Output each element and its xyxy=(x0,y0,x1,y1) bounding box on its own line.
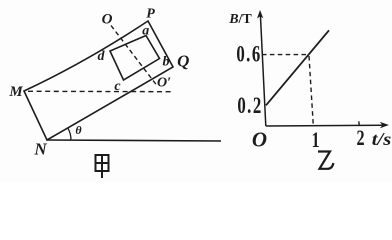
caption yi xyxy=(318,152,333,169)
svg-text:0.6: 0.6 xyxy=(236,42,261,67)
svg-text:t/s: t/s xyxy=(372,129,392,149)
svg-text:N: N xyxy=(33,140,47,159)
svg-text:2: 2 xyxy=(356,127,364,151)
dashed horizontal from M xyxy=(28,90,172,92)
rectangle plate MPQN xyxy=(24,21,173,140)
x axis arrowhead xyxy=(380,122,389,128)
svg-text:M: M xyxy=(8,84,23,100)
coil loop abcd xyxy=(110,36,160,81)
svg-text:O: O xyxy=(252,128,267,152)
tick at 2 xyxy=(358,121,361,126)
axis dashed O-O' xyxy=(111,26,157,86)
svg-text:a: a xyxy=(142,24,149,39)
y axis arrowhead xyxy=(257,10,263,19)
svg-text:0.2: 0.2 xyxy=(237,94,262,119)
dashed level 0.6 xyxy=(262,54,309,56)
dashed drop t=1 xyxy=(309,56,313,126)
y axis B xyxy=(260,15,265,126)
caption jia xyxy=(96,155,109,178)
svg-text:d: d xyxy=(98,49,106,64)
angle arc theta xyxy=(68,128,71,140)
svg-text:O′: O′ xyxy=(157,76,171,91)
svg-text:1: 1 xyxy=(311,129,319,153)
svg-text:c: c xyxy=(114,79,121,94)
ground line xyxy=(47,140,221,141)
svg-text:b: b xyxy=(163,55,170,70)
svg-text:Q: Q xyxy=(177,52,189,71)
svg-text:P: P xyxy=(146,7,155,22)
B-t line xyxy=(266,30,329,105)
svg-text:O: O xyxy=(102,12,113,28)
svg-text:θ: θ xyxy=(75,123,82,137)
x axis t xyxy=(266,124,385,127)
svg-text:B/T: B/T xyxy=(228,12,252,27)
